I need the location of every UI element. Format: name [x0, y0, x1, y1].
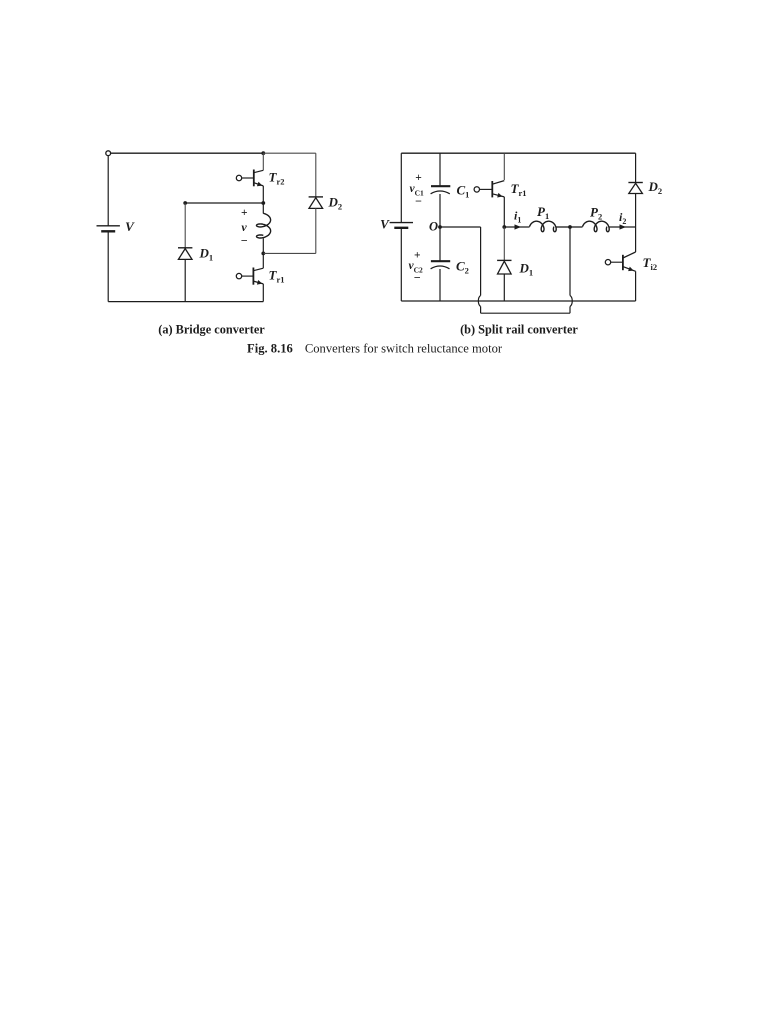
svg-text:P1: P1 [537, 204, 549, 221]
svg-text:(b) Split rail converter: (b) Split rail converter [460, 323, 578, 337]
svg-text:Ti2: Ti2 [643, 255, 658, 272]
svg-text:C1: C1 [457, 183, 470, 200]
svg-text:i1: i1 [514, 209, 521, 225]
svg-text:Tr1: Tr1 [269, 268, 285, 285]
svg-text:V: V [380, 217, 390, 232]
svg-text:+: + [241, 207, 248, 219]
svg-text:+: + [415, 172, 422, 184]
svg-text:−: − [241, 234, 248, 248]
svg-text:C2: C2 [456, 259, 469, 276]
svg-text:i2: i2 [619, 210, 626, 226]
svg-text:−: − [414, 271, 421, 285]
svg-text:Tr2: Tr2 [269, 170, 285, 187]
svg-text:Tr1: Tr1 [511, 181, 527, 198]
svg-text:V: V [125, 219, 135, 234]
svg-text:(a) Bridge converter: (a) Bridge converter [158, 323, 265, 337]
svg-text:v: v [241, 220, 247, 234]
svg-text:O: O [429, 220, 438, 234]
svg-text:P2: P2 [590, 205, 602, 222]
svg-text:D1: D1 [519, 261, 534, 278]
svg-text:−: − [415, 194, 422, 208]
svg-text:D2: D2 [648, 179, 663, 196]
svg-text:Fig. 8.16Converters for switch: Fig. 8.16Converters for switch reluctanc… [247, 342, 503, 356]
svg-text:+: + [414, 250, 421, 262]
svg-text:D2: D2 [328, 195, 343, 212]
svg-text:D1: D1 [199, 246, 214, 263]
